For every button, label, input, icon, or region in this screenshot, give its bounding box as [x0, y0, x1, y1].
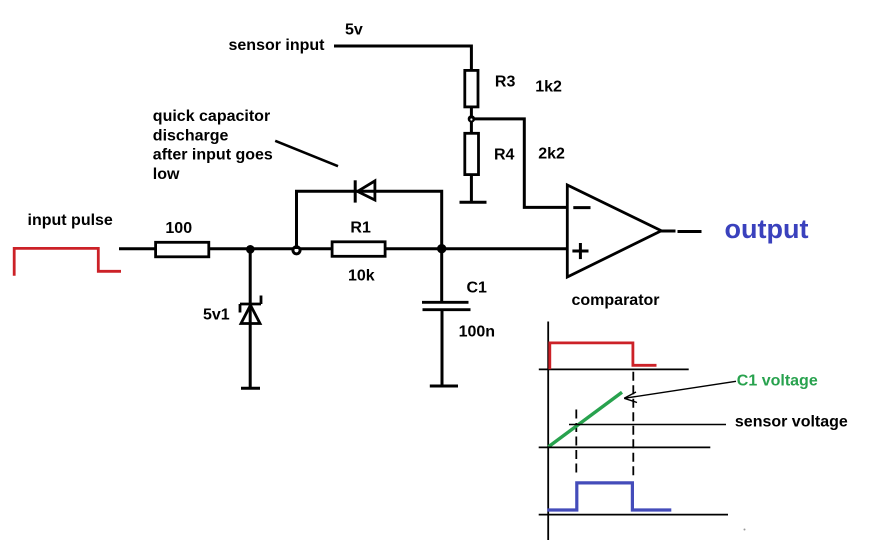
green C1 ramp — [549, 392, 623, 447]
dashed line t2 — [632, 372, 634, 476]
ground below C1 — [430, 385, 458, 388]
svg-text:discharge: discharge — [153, 127, 229, 144]
svg-text:100: 100 — [165, 220, 192, 237]
resistor 100 — [156, 242, 209, 256]
dashed line t1 — [575, 410, 577, 477]
wire sensor input to R3 — [334, 46, 471, 70]
ground below zener — [241, 387, 260, 390]
resistor R4 — [465, 133, 479, 174]
timing axis 2 — [539, 446, 711, 448]
wire junction to inverting input — [473, 119, 567, 207]
capacitor C1 — [422, 301, 469, 304]
blue output waveform — [547, 483, 671, 510]
svg-text:10k: 10k — [348, 267, 375, 284]
wire C1 to ground — [441, 310, 444, 387]
node zener junction — [246, 245, 255, 254]
diode discharge — [354, 180, 357, 202]
svg-text:2k2: 2k2 — [538, 146, 565, 163]
svg-text:quick capacitor: quick capacitor — [153, 108, 270, 125]
svg-text:R4: R4 — [494, 147, 515, 164]
ground below R4 — [460, 201, 487, 204]
zener diode 5v1 — [240, 303, 261, 306]
svg-text:R1: R1 — [350, 219, 371, 236]
pointer line to diode — [275, 141, 338, 166]
svg-text:5v: 5v — [345, 22, 363, 39]
svg-text:C1 voltage: C1 voltage — [737, 373, 818, 390]
svg-text:sensor input: sensor input — [229, 37, 326, 54]
node diode branch junction — [293, 247, 300, 254]
minus sign — [573, 206, 590, 209]
svg-text:sensor voltage: sensor voltage — [735, 414, 848, 431]
svg-text:comparator: comparator — [572, 292, 660, 309]
timing axis 3 — [539, 514, 728, 516]
svg-text:after input goes: after input goes — [153, 147, 273, 164]
output wire — [661, 230, 676, 233]
timing axis 1 — [539, 368, 689, 370]
svg-text:R3: R3 — [495, 74, 516, 91]
svg-text:C1: C1 — [467, 280, 488, 297]
wire R3 to R4 — [470, 106, 473, 134]
svg-text:1k2: 1k2 — [535, 79, 562, 96]
wire R4 to ground — [470, 175, 473, 203]
svg-text:5v1: 5v1 — [203, 307, 230, 324]
plus sign — [572, 250, 588, 253]
op-amp U1 comparator — [567, 185, 661, 277]
arrow annotation to ramp — [624, 381, 736, 398]
sensor voltage level line — [569, 424, 726, 426]
timing diagram vertical axis — [547, 322, 549, 541]
svg-text:low: low — [153, 166, 180, 183]
svg-text:input pulse: input pulse — [28, 212, 113, 229]
red input waveform — [550, 343, 657, 369]
node R3/R4 junction — [468, 115, 475, 122]
resistor R1 — [332, 242, 385, 256]
svg-text:output: output — [725, 214, 809, 244]
main wire input to op-amp + — [119, 247, 566, 250]
node C1 junction — [437, 244, 446, 253]
input pulse red waveform — [14, 248, 121, 275]
wire node to zener — [249, 249, 252, 388]
svg-text:100n: 100n — [459, 324, 495, 341]
wire diode branch — [297, 191, 442, 249]
wire node to C1 — [440, 249, 443, 301]
resistor R3 — [465, 70, 478, 107]
stray dot — [744, 529, 746, 531]
